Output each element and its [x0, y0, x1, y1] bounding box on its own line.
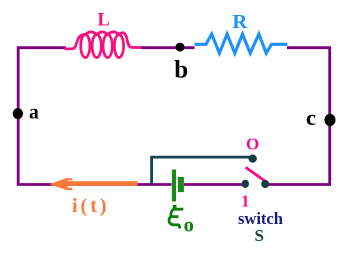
svg-text:S: S — [255, 226, 264, 245]
svg-text:i(t): i(t) — [72, 195, 110, 217]
svg-text:b: b — [174, 56, 188, 83]
svg-text:L: L — [98, 10, 110, 30]
svg-text:O: O — [246, 135, 259, 154]
svg-text:c: c — [306, 105, 316, 130]
svg-text:a: a — [29, 102, 39, 123]
svg-text:R: R — [232, 11, 247, 33]
svg-text:1: 1 — [241, 191, 250, 210]
svg-text:switch: switch — [238, 209, 283, 228]
svg-text:o: o — [184, 214, 194, 236]
